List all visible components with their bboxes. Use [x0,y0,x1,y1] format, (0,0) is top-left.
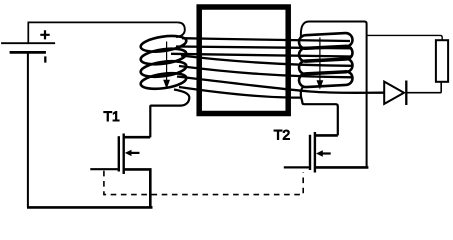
svg-text:T2: T2 [274,126,291,142]
svg-text:T1: T1 [104,108,121,124]
